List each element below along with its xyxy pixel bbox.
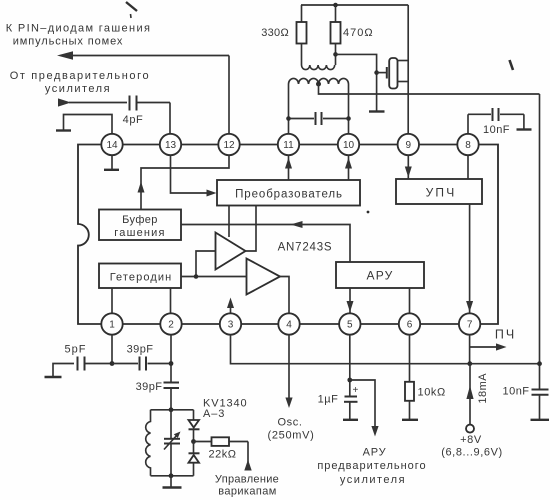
svg-text:(250mV): (250mV) [267, 430, 314, 442]
label Osc. (250mV) [267, 417, 314, 442]
junction dot varicap node [191, 439, 196, 444]
wire L2 right to pin 10 [348, 84, 350, 134]
wire pin13 to Преобразователь [171, 155, 217, 197]
svg-text:10: 10 [343, 140, 355, 151]
svg-text:1: 1 [109, 320, 115, 331]
wire pin 7 down [469, 335, 471, 364]
amp triangle 2 [247, 259, 281, 295]
arrow at pin 3 [227, 298, 234, 314]
junction dot pin10 cap [346, 116, 351, 121]
pin 14 [101, 134, 122, 155]
svg-text:39pF: 39pF [127, 344, 154, 356]
wire tap to right rail [319, 84, 540, 94]
svg-text:10kΩ: 10kΩ [418, 387, 446, 399]
svg-text:18mA: 18mA [477, 373, 489, 404]
svg-text:УПЧ: УПЧ [426, 186, 457, 200]
capacitor 10nF bottom right [532, 390, 549, 420]
input arrow from preamp [58, 98, 127, 106]
pin 4 [278, 313, 299, 334]
svg-text:3: 3 [228, 320, 234, 331]
svg-text:К PIN–диодам гашения: К PIN–диодам гашения [6, 23, 152, 35]
ground below 10kΩ [402, 419, 418, 421]
capacitor 39pF vertical [164, 383, 180, 410]
block Преобразователь [217, 180, 360, 206]
svg-text:гашения: гашения [114, 227, 165, 239]
wire pin 8 to УПЧ [467, 155, 469, 179]
transistor VT1 MOSFET [377, 58, 409, 89]
pin 9 [398, 134, 419, 155]
svg-text:6: 6 [407, 320, 413, 331]
junction dot gate [374, 70, 379, 75]
svg-text:8: 8 [465, 140, 471, 151]
ground below 10nF [531, 419, 550, 421]
pin 2 [160, 313, 181, 334]
pin 3 [220, 313, 241, 334]
svg-text:4pF: 4pF [123, 114, 144, 126]
label АРУ предварительного усилителя [317, 447, 426, 487]
wire gate bias to ground [336, 54, 377, 111]
label Управление варикапам [215, 474, 279, 498]
block АРУ [336, 262, 424, 288]
wire: pin 12 riser [228, 56, 230, 135]
wire pin 5 down [347, 335, 352, 397]
svg-text:2: 2 [168, 320, 174, 331]
svg-text:предварительного: предварительного [317, 460, 426, 472]
svg-text:9: 9 [406, 140, 412, 151]
wire Преобразователь to pin 11 [285, 155, 292, 180]
capacitor 1µF [344, 385, 359, 419]
variable capacitor [164, 410, 181, 476]
pin 11 [278, 134, 299, 155]
block Буфер гашения [99, 210, 181, 241]
pin 1 [101, 313, 122, 334]
pin 6 [399, 313, 420, 334]
wire Преобразователь to pin 10 [345, 155, 352, 180]
svg-text:варикапам: варикапам [218, 486, 277, 498]
svg-text:12: 12 [223, 140, 235, 151]
coil L2 secondary [289, 78, 349, 84]
label KV1340 A-3 [203, 398, 248, 421]
svg-text:14: 14 [106, 140, 118, 151]
pin 10 [338, 134, 359, 155]
wire right-side vertical [539, 94, 541, 389]
coil L1 primary [302, 65, 335, 70]
wire pin 4 osc output [285, 335, 292, 409]
svg-text:Преобразователь: Преобразователь [235, 189, 343, 201]
junction dot pin11 cap [286, 116, 291, 121]
wire amp2 to pin 4 [280, 277, 289, 314]
IC body AN7243S [78, 145, 498, 325]
wire pin 2 down [169, 335, 174, 383]
svg-text:10nF: 10nF [483, 124, 510, 136]
varicap VD1 [189, 410, 200, 442]
wire Буфер to pin 12 [138, 155, 230, 210]
wire ПЧ output [470, 343, 507, 350]
capacitor 39pF horizontal [112, 357, 171, 371]
svg-text:АРУ: АРУ [363, 447, 387, 459]
capacitor osc tank [289, 112, 349, 125]
svg-text:10nF: 10nF [502, 386, 529, 398]
ground below 1µF [343, 419, 358, 421]
svg-text:+: + [353, 385, 359, 396]
wire AGC output [350, 380, 379, 437]
stray mark top right [510, 60, 514, 70]
wire АРУ to pin 5 [347, 288, 354, 314]
ground below tank [163, 476, 182, 488]
wire АРУ to pin 6 [409, 288, 411, 314]
svg-text:470Ω: 470Ω [343, 27, 374, 39]
svg-text:+8V: +8V [460, 434, 482, 446]
svg-text:АРУ: АРУ [367, 269, 394, 283]
resistor 22kΩ [194, 437, 249, 446]
ground at 10nF top right [517, 128, 532, 130]
svg-text:Управление: Управление [215, 474, 279, 486]
svg-text:5pF: 5pF [65, 344, 87, 356]
svg-text:11: 11 [283, 140, 294, 151]
top rail of oscillator [301, 4, 408, 6]
capacitor 4pF [130, 96, 171, 111]
inductor L3 [146, 410, 151, 476]
varicap VD2 [189, 442, 200, 476]
varicap control arrow [244, 442, 251, 471]
capacitor 10nF at pin 8 [468, 108, 524, 134]
label: К PIN-диодам гашения импульсных помех [6, 23, 152, 48]
junction dot +8V rail [467, 361, 472, 366]
resistor 10kΩ [405, 382, 414, 419]
svg-text:5: 5 [347, 320, 353, 331]
svg-text:Буфер: Буфер [122, 214, 158, 226]
wire amp1 tip to Преобразователь [246, 206, 257, 252]
svg-text:22kΩ: 22kΩ [209, 449, 237, 461]
tank top wire [151, 407, 194, 412]
svg-text:7: 7 [467, 320, 473, 331]
wire: pin 13 riser [169, 103, 171, 135]
svg-text:39pF: 39pF [136, 381, 163, 393]
wire Гетеродин to pin 2 [170, 288, 172, 314]
wire Гетеродин to amplifiers [181, 251, 247, 279]
junction dot rail right end [537, 361, 542, 366]
pin 5 [339, 313, 360, 334]
label: От предварительного усилителя [10, 70, 150, 95]
wire pin 6 down [409, 335, 411, 383]
svg-text:1µF: 1µF [318, 394, 339, 406]
resistor 330Ω [297, 5, 307, 65]
wire pin 9 to УПЧ [405, 155, 412, 179]
wire Преобразователь out to amp1 [228, 206, 230, 238]
block Гетеродин [99, 264, 181, 289]
svg-text:усилителя: усилителя [45, 83, 111, 95]
stray dot [367, 211, 370, 214]
svg-text:4: 4 [286, 320, 292, 331]
pin 8 [457, 134, 478, 155]
wire to PIN diodes (left arrow) [57, 51, 229, 59]
junction dot L2 tap [316, 82, 321, 87]
wire АРУ to Буфер (left arrow) [181, 221, 350, 262]
svg-text:ПЧ: ПЧ [495, 328, 516, 342]
svg-text:AN7243S: AN7243S [278, 242, 333, 254]
wire: pin 9 riser / drain net [407, 5, 409, 134]
ground at pin 14 (outside) [56, 115, 112, 134]
resistor 470Ω [331, 5, 341, 65]
svg-text:330Ω: 330Ω [261, 27, 289, 39]
amp triangle 1 [216, 233, 246, 270]
pin 13 [160, 134, 181, 155]
+8V supply terminal [466, 364, 474, 433]
stray mark top left [126, 2, 137, 18]
wire pin 1 down [110, 335, 115, 366]
svg-text:От предварительного: От предварительного [10, 70, 150, 82]
junction dot gate bias [333, 52, 338, 57]
svg-text:13: 13 [165, 140, 177, 151]
svg-text:А–3: А–3 [203, 408, 225, 420]
ground at FET gate [369, 110, 385, 112]
capacitor 5pF [78, 357, 113, 371]
pin 14 internal ground [104, 155, 119, 170]
svg-text:(6,8...9,6V): (6,8...9,6V) [441, 447, 503, 459]
junction dot 470 top [333, 3, 338, 8]
block УПЧ [396, 179, 482, 204]
ground bottom left [45, 364, 75, 378]
svg-text:усилителя: усилителя [340, 474, 406, 486]
wire УПЧ to pin 7 [466, 204, 473, 314]
pin 7 [459, 313, 480, 334]
pin 12 [218, 134, 239, 155]
svg-text:Osc.: Osc. [277, 417, 302, 429]
wire Гетеродин to pin 1 [111, 288, 113, 314]
svg-text:импульсных помех: импульсных помех [13, 36, 124, 48]
tank bottom wire [151, 473, 194, 478]
wire pin 3 to supply rail [231, 335, 540, 364]
svg-text:Гетеродин: Гетеродин [110, 272, 173, 284]
wire L2 left to pin 11 [288, 84, 290, 134]
